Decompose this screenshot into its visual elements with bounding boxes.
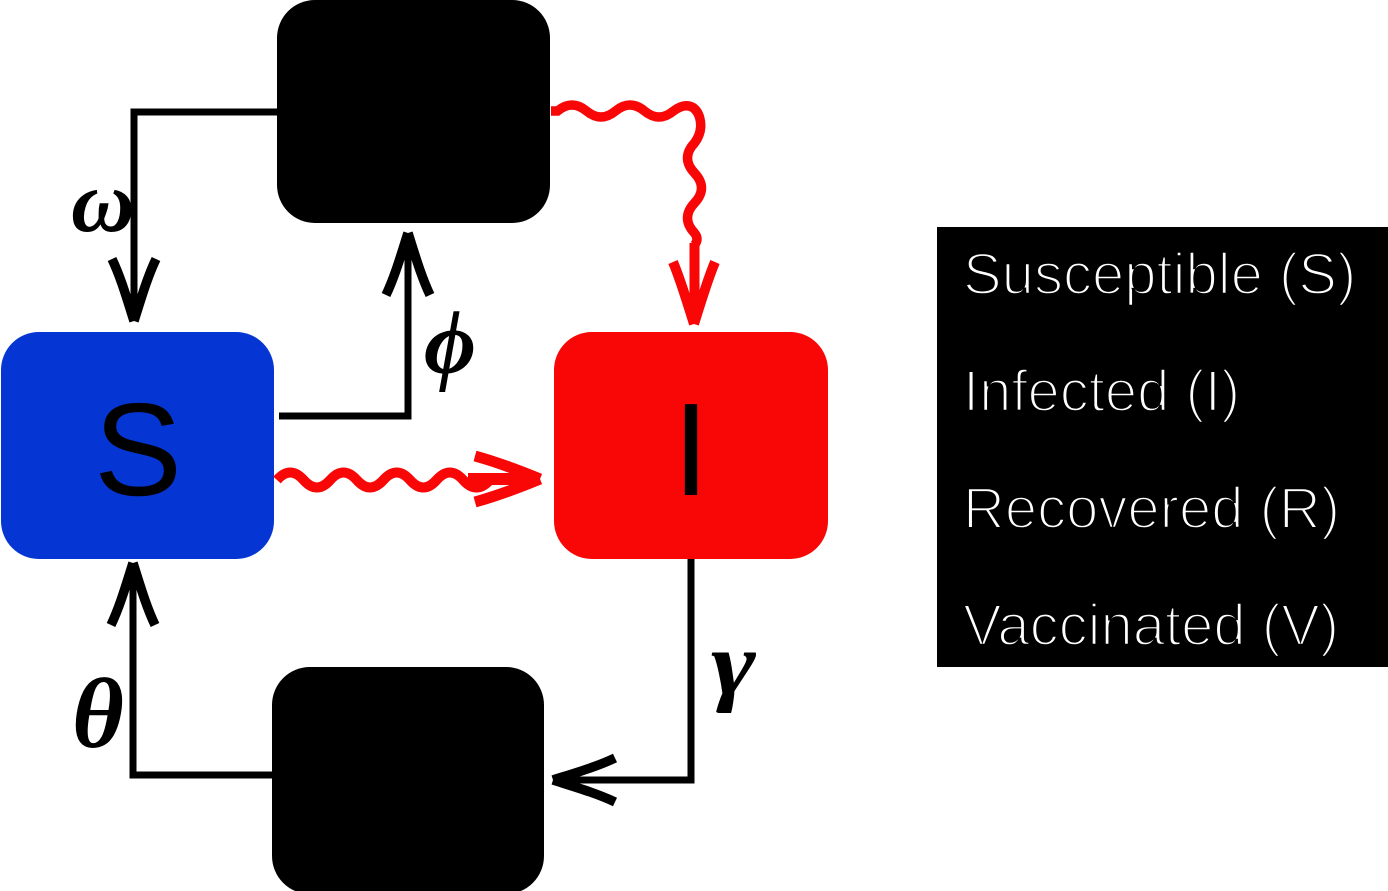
arrow phi S to V [279, 233, 430, 416]
svg-text:S: S [94, 376, 182, 523]
box R (recovered, black) [272, 667, 544, 891]
box V (vaccinated, black) [277, 0, 550, 223]
legend box [937, 227, 1388, 667]
arrow gamma I to R [553, 559, 691, 802]
svg-text:ω: ω [71, 154, 135, 251]
arrow omega V to S [112, 112, 277, 321]
svg-text:ϕ: ϕ [424, 294, 476, 393]
red wavy arrow V to I [551, 105, 715, 324]
svg-text:γ: γ [711, 615, 757, 714]
red wavy arrow S to I [277, 456, 540, 502]
svg-text:Recovered (R): Recovered (R) [963, 476, 1340, 541]
svg-text:θ: θ [72, 658, 124, 769]
svg-text:Infected (I): Infected (I) [963, 359, 1240, 424]
svg-text:I: I [673, 376, 710, 523]
arrow theta R to S [111, 563, 272, 775]
svg-text:Vaccinated (V): Vaccinated (V) [963, 593, 1339, 658]
svg-text:Susceptible (S): Susceptible (S) [963, 242, 1356, 307]
box S (susceptible, blue) [1, 332, 274, 559]
box I (infected, red) [554, 332, 828, 559]
